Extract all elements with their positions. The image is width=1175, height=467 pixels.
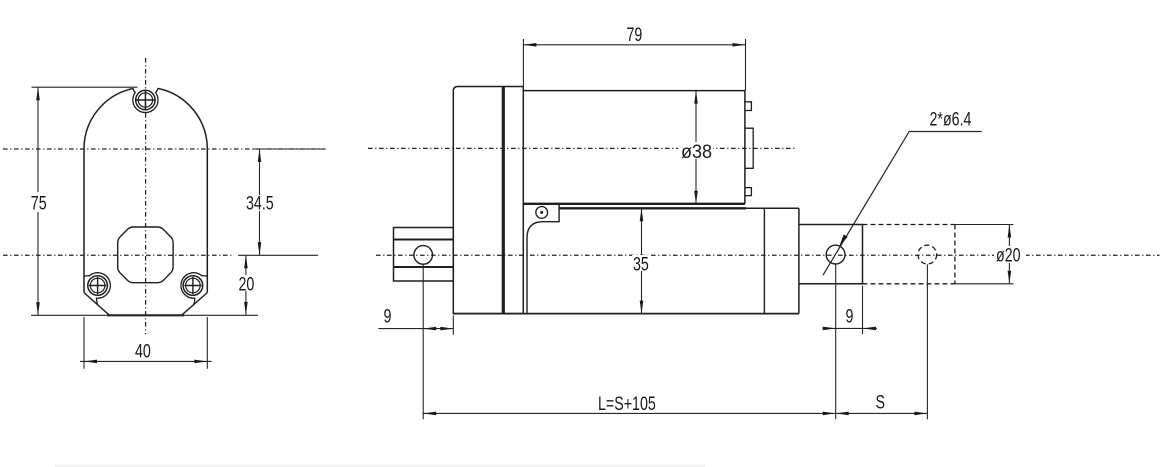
dimension 20 line bbox=[245, 255, 247, 315]
dimension 35 line bbox=[641, 208, 643, 313]
plate outline (left view) bbox=[84, 88, 207, 292]
centerline horizontal upper (left view, y=149) bbox=[3, 148, 326, 150]
tube seam vertical bbox=[763, 208, 765, 313]
clevis hole extension vertical bbox=[422, 264, 424, 419]
rod phantom hole bbox=[918, 245, 937, 264]
dimension L=S+105 line bbox=[423, 412, 836, 414]
svg-text:34.5: 34.5 bbox=[246, 193, 274, 214]
bracket on tube bbox=[526, 204, 559, 222]
screw top inner circle bbox=[138, 93, 152, 107]
motor terminal tab top bbox=[745, 102, 752, 111]
leader 2*phi6.4 bbox=[823, 132, 982, 276]
svg-text:L=S+105: L=S+105 bbox=[598, 393, 656, 414]
tube end face bbox=[798, 208, 800, 313]
clevis block bbox=[394, 228, 454, 282]
housing-left extension vertical bbox=[452, 316, 454, 335]
housing joint thick line bbox=[502, 87, 505, 314]
svg-text:ø38: ø38 bbox=[681, 141, 712, 163]
svg-text:35: 35 bbox=[633, 253, 649, 274]
rod phantom end face bbox=[954, 225, 956, 284]
dimension phi38 line bbox=[695, 91, 697, 204]
bottom-left screw notch bbox=[84, 273, 110, 305]
tube top line right part bbox=[746, 207, 799, 209]
screw top cross bbox=[135, 90, 155, 110]
svg-text:2*ø6.4: 2*ø6.4 bbox=[930, 109, 972, 130]
phantom hole extension vertical bbox=[926, 264, 928, 419]
dimension 34.5 line bbox=[259, 149, 261, 255]
dimension 79 line bbox=[523, 44, 745, 46]
rod end extension vertical bbox=[862, 286, 864, 335]
screw bottom-left outer circle bbox=[88, 276, 108, 296]
screw bottom-right cross bbox=[184, 277, 201, 294]
motor centerline (right view, y=148.4) bbox=[368, 147, 795, 149]
centerline vertical (left view, x=145.6) bbox=[145, 58, 147, 334]
dimension 40 line bbox=[80, 360, 212, 362]
motor terminal tab bottom bbox=[745, 188, 752, 196]
rod hole bbox=[826, 245, 845, 264]
clevis slot line upper bbox=[394, 239, 454, 241]
dimension 79 extension left bbox=[522, 39, 524, 87]
phi20 extension top bbox=[955, 224, 1014, 226]
svg-text:79: 79 bbox=[627, 24, 643, 45]
clevis hole bbox=[414, 246, 433, 265]
screw bottom-right outer circle bbox=[183, 276, 203, 296]
motor bottom line bbox=[523, 203, 745, 205]
extension line bottom (y=315.3) bbox=[31, 314, 258, 316]
rod hole extension vertical bbox=[835, 264, 837, 419]
dimension 9 right line bbox=[823, 327, 877, 329]
dimension 9 left line bbox=[378, 328, 453, 330]
top screw notch bbox=[133, 88, 158, 112]
clevis slot line lower bbox=[394, 266, 454, 268]
dimension S line bbox=[836, 412, 928, 414]
housing block bbox=[453, 87, 523, 314]
bracket screw circled dot bbox=[536, 207, 548, 219]
svg-text:40: 40 bbox=[135, 341, 151, 362]
rod phantom top bbox=[863, 224, 955, 226]
phi20 extension bottom bbox=[955, 283, 1014, 285]
tube top line bbox=[559, 207, 746, 209]
svg-text:75: 75 bbox=[31, 193, 47, 214]
motor end cap center bbox=[745, 128, 753, 168]
octagon hole bbox=[118, 227, 173, 283]
dimension 40 extension right bbox=[206, 317, 208, 369]
extension line y=149 solid bbox=[253, 148, 323, 150]
screw top outer circle bbox=[136, 90, 155, 109]
chamfer bottom-left bbox=[84, 293, 110, 316]
extension line y=255.3 solid bbox=[238, 254, 318, 256]
bottom-right screw notch bbox=[181, 273, 207, 305]
chamfer bottom-right bbox=[182, 293, 208, 316]
rod solid section bbox=[799, 225, 863, 284]
extension line top (y=87.2) bbox=[32, 86, 138, 88]
centerline horizontal main (left view, y=255.3) bbox=[3, 254, 231, 256]
main axis centerline (right view, y=255.3) bbox=[376, 254, 1160, 256]
dimension phi20 line bbox=[1008, 225, 1010, 284]
svg-text:S: S bbox=[876, 392, 886, 413]
rod phantom bottom bbox=[863, 283, 955, 285]
screw bottom-right inner circle bbox=[186, 278, 201, 293]
dimension 40 extension left bbox=[83, 317, 85, 369]
dimension 75 line bbox=[37, 87, 39, 315]
tube bottom line bbox=[453, 313, 799, 315]
dimension 79 extension right bbox=[745, 39, 747, 91]
scan shadow bottom bbox=[55, 465, 705, 467]
screw bottom-left cross bbox=[89, 277, 106, 294]
motor body bbox=[523, 91, 745, 204]
svg-text:ø20: ø20 bbox=[996, 245, 1021, 266]
svg-text:9: 9 bbox=[384, 306, 392, 327]
svg-text:9: 9 bbox=[846, 306, 854, 327]
svg-text:20: 20 bbox=[239, 274, 255, 295]
plate bottom edge bbox=[107, 314, 184, 316]
fillet contour to tube wall bbox=[527, 222, 543, 314]
screw bottom-left inner circle bbox=[90, 278, 105, 293]
